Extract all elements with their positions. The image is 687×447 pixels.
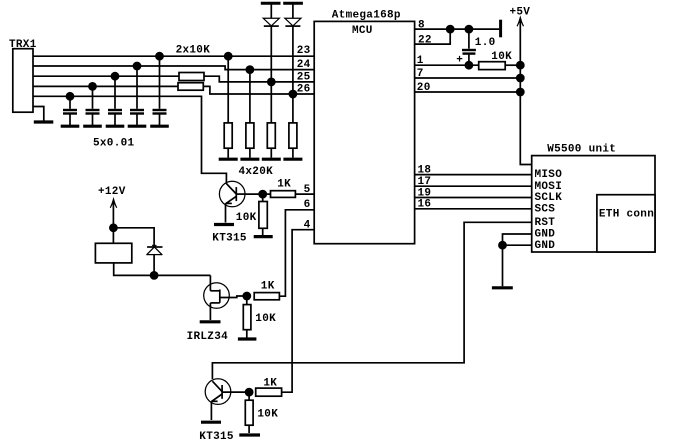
svg-text:5x0.01: 5x0.01 [93, 138, 135, 150]
svg-text:RST: RST [535, 217, 556, 229]
svg-text:ETH conn: ETH conn [599, 208, 654, 220]
node rail/pin20 [516, 88, 525, 97]
ground [200, 320, 221, 323]
wire MCU pin5 to 1K [295, 193, 314, 195]
wire pin22 up to pin8 net [415, 29, 451, 44]
resistor 1K (Q1 base) [271, 191, 296, 198]
node GND [498, 241, 507, 250]
resistor Ra 10K [179, 73, 204, 81]
resistor 10K (Q2 gate pulldown) [238, 296, 257, 339]
resistor 10K (Q3 base pulldown) [239, 392, 260, 435]
svg-text:SCS: SCS [535, 203, 556, 215]
resistor 1K (Q3 base) [256, 388, 282, 396]
svg-text:10K: 10K [257, 409, 278, 421]
ground [238, 337, 257, 340]
svg-text:MCU: MCU [352, 25, 373, 37]
wire TRX1 ground lead [33, 107, 44, 121]
wire pin7 to +5V rail [415, 77, 521, 79]
svg-text:TRX1: TRX1 [9, 39, 37, 51]
power +5V arrow [519, 17, 522, 23]
node pin1/C6 [465, 61, 474, 70]
junction node [111, 72, 120, 81]
capacitor C5 0.01 [150, 52, 169, 126]
ground [219, 158, 238, 161]
wire MOSI pin17 to W5500 [415, 185, 532, 187]
svg-text:MOSI: MOSI [535, 181, 563, 193]
MCU U1 Atmega168p box [314, 21, 414, 243]
svg-text:1K: 1K [263, 377, 277, 389]
junction node [66, 92, 75, 101]
svg-text:4x20K: 4x20K [239, 166, 274, 178]
svg-text:26: 26 [297, 84, 311, 96]
wire net4 TRX1 to resistor Rb [33, 85, 178, 87]
connector TRX1 box [13, 49, 33, 112]
diode D1 top terminal bar [261, 2, 281, 5]
wire RST to Q3 collector [212, 222, 531, 379]
resistor 10K (reset pullup) [479, 62, 506, 70]
wire GND2 to ground [503, 244, 532, 246]
ground [262, 158, 281, 161]
wire pin1 to R 10K [415, 64, 479, 66]
wire pin8 to +5V bar [415, 28, 500, 30]
diode D2 [285, 4, 301, 94]
transistor Q2 IRLZ34 [200, 275, 247, 321]
ground [201, 421, 221, 424]
resistor 20K #4 [283, 94, 302, 159]
resistor 1K (Q2 gate) [254, 293, 279, 300]
ground [106, 125, 125, 128]
svg-text:GND: GND [535, 229, 556, 241]
ground TRX1 [34, 120, 54, 123]
ground [150, 125, 169, 128]
wire +12V down to relay node [112, 201, 114, 244]
ETH conn box [597, 195, 655, 252]
ground [240, 158, 259, 161]
svg-text:W5500 unit: W5500 unit [547, 143, 616, 155]
svg-text:23: 23 [297, 45, 311, 57]
capacitor C1 0.01 [61, 92, 80, 126]
svg-text:1K: 1K [261, 280, 275, 292]
svg-text:2x10K: 2x10K [176, 44, 211, 56]
node rail/pin1 [516, 61, 525, 70]
node on net1 (20K pulldown) [224, 52, 233, 61]
junction node [133, 62, 142, 71]
svg-text:KT315: KT315 [212, 232, 247, 244]
wire net1 TRX1 to MCU pin 23 [33, 55, 314, 57]
ground [61, 125, 80, 128]
capacitor C6 1.0 electrolytic [456, 29, 476, 66]
svg-text:KT315: KT315 [199, 431, 234, 443]
wire net5 TRX1 to Q1 collector [33, 96, 226, 184]
power +12V arrow [112, 198, 115, 204]
resistor 10K (Q1 base pulldown) [254, 194, 273, 237]
svg-text:25: 25 [297, 71, 311, 83]
diode D2 top terminal bar [283, 2, 303, 5]
svg-text:10K: 10K [255, 313, 276, 325]
wire 1K to Q1 base node [246, 193, 271, 195]
node pin8/C6 [465, 25, 474, 34]
svg-text:GND: GND [535, 240, 556, 252]
capacitor C4 0.01 [128, 62, 147, 127]
wire Rb to MCU pin 26 [203, 86, 314, 94]
node Q2 gate [242, 292, 251, 301]
transistor Q3 KT315 [201, 379, 249, 422]
svg-text:10K: 10K [236, 212, 257, 224]
wire +5V rail down to W5500 [520, 19, 531, 165]
wire SCLK pin19 to W5500 [415, 197, 532, 199]
wire net2 TRX1 to MCU pin 24 [33, 66, 314, 70]
wire MCU pin6 to 1K (IRLZ34 gate) [279, 210, 314, 296]
relay K1 coil box [95, 243, 131, 263]
svg-text:SCLK: SCLK [535, 192, 563, 204]
svg-text:+12V: +12V [98, 186, 126, 198]
svg-text:IRLZ34: IRLZ34 [187, 331, 229, 343]
svg-text:Atmega168p: Atmega168p [332, 9, 401, 21]
diode D1 [263, 4, 279, 82]
node rail/pin7 [516, 74, 525, 83]
capacitor C3 0.01 [106, 72, 125, 126]
ground [283, 158, 302, 161]
wire SCS pin16 to W5500 [415, 208, 532, 210]
svg-text:24: 24 [297, 59, 311, 71]
ground [239, 433, 260, 436]
wire GND down [502, 245, 504, 286]
ground W5500 [492, 286, 513, 289]
resistor 20K #2 [240, 70, 259, 160]
wire net3 TRX1 to resistor Ra [33, 75, 179, 77]
node Q1 base [258, 190, 267, 199]
diode D3 flyback [147, 245, 163, 276]
svg-text:1.0: 1.0 [475, 37, 496, 49]
ground [83, 125, 102, 128]
W5500 unit box [532, 156, 655, 252]
node relay/diode/drain [150, 271, 159, 280]
wire +12V node to diode top [113, 228, 154, 247]
node on net3 (20K pulldown + D1) [267, 78, 276, 87]
ground [128, 125, 147, 128]
transistor Q1 KT315 [214, 181, 246, 224]
wire MISO pin18 to W5500 [415, 174, 532, 176]
ground [254, 235, 273, 238]
junction node [88, 82, 97, 91]
wire relay bottom to IRLZ34 drain [114, 263, 211, 276]
resistor 20K #3 [262, 82, 281, 159]
ground [214, 223, 234, 226]
node Q3 base [245, 388, 254, 397]
wire Ra to MCU pin 25 [204, 76, 314, 82]
svg-text:1K: 1K [277, 179, 291, 191]
junction node [155, 52, 164, 61]
resistor 20K #1 [219, 56, 238, 159]
wire GND1 to ground [503, 234, 532, 245]
wire 10K to +5V rail [505, 64, 520, 66]
node on net2 (20K pulldown) [246, 65, 255, 74]
node +12V [109, 223, 118, 232]
power bar +5V terminal [499, 20, 502, 38]
capacitor C2 0.01 [83, 82, 102, 126]
svg-text:MISO: MISO [535, 169, 563, 181]
svg-text:10K: 10K [491, 51, 512, 63]
wire pin20 to +5V rail [415, 91, 521, 93]
node on net4 (20K pulldown + D2) [289, 90, 298, 99]
node pin8/pin22 [446, 25, 455, 34]
resistor Rb 10K [178, 83, 203, 91]
wire MCU pin4 to 1K (Q3 base) [282, 230, 315, 393]
